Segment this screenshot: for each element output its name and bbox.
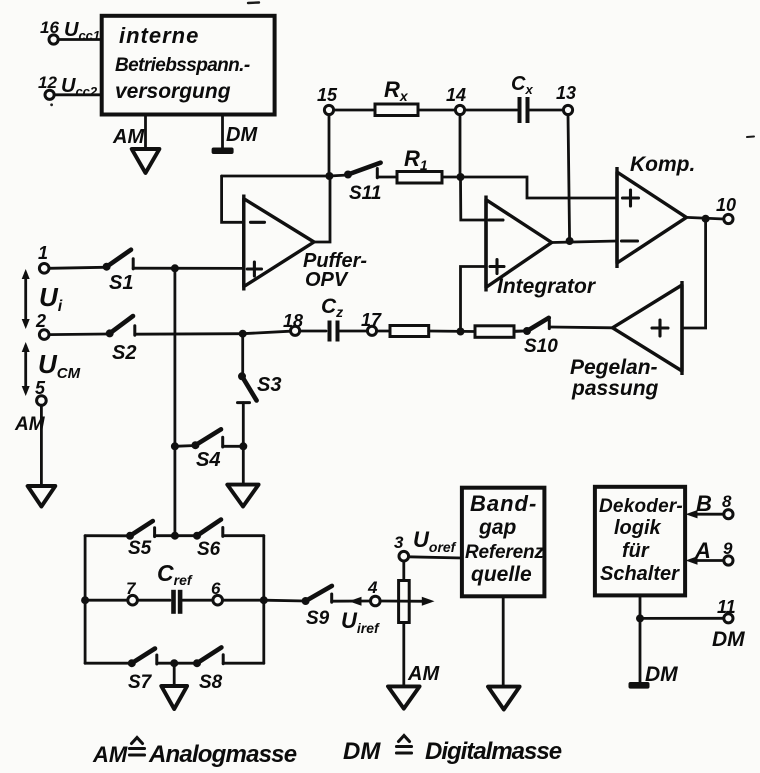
svg-text:16: 16 — [40, 18, 59, 37]
svg-text:Rx: Rx — [384, 77, 409, 104]
svg-text:Dekoder-: Dekoder- — [599, 496, 683, 517]
op-amp Integrator — [486, 196, 597, 299]
svg-text:8: 8 — [722, 492, 732, 511]
svg-text:AM: AM — [92, 742, 128, 767]
pin 11 — [712, 597, 745, 651]
switch S11 — [344, 163, 397, 204]
block Bandgap Referenzquelle — [462, 488, 545, 597]
resistor (level shift) — [475, 326, 514, 338]
wire node14 down to junction — [459, 115, 462, 177]
capacitor Cx — [511, 73, 533, 123]
wire pin12 to supply box — [54, 93, 102, 96]
wire mid-right to S9 — [264, 599, 306, 603]
svg-text:Komp.: Komp. — [630, 153, 695, 176]
junction S4 / ground branch — [239, 442, 247, 450]
resistor (integrator input) — [390, 326, 429, 337]
wire buffer feedback riser to inverting input — [222, 176, 244, 222]
capacitor Cref — [157, 560, 193, 614]
wire node18 to Cz — [300, 330, 326, 333]
junction Cref mid-left — [81, 596, 89, 604]
arrow Ui — [22, 269, 63, 329]
ground AM (bandgap) — [488, 687, 520, 710]
wire Cref top-left — [85, 534, 130, 537]
svg-text:OPV: OPV — [305, 269, 349, 291]
wire S3 branch upper — [241, 334, 244, 375]
node 17 — [361, 310, 382, 335]
wire pin5 down — [40, 405, 43, 486]
switch S5 — [126, 521, 155, 559]
op-amp Puffer-OPV — [244, 195, 368, 292]
svg-text:AM: AM — [407, 663, 440, 685]
wire node15 down — [328, 115, 331, 176]
wire node15 to Rx — [334, 109, 375, 112]
resistor (reference divider) — [399, 581, 410, 623]
junction integrator output / node13 drop — [566, 237, 574, 245]
switch S9 — [302, 586, 332, 629]
svg-text:logik: logik — [614, 517, 662, 539]
svg-text:S6: S6 — [197, 539, 221, 560]
switch S10 — [514, 318, 558, 357]
wire S3 branch lower — [242, 403, 245, 447]
pin 1 — [38, 243, 49, 273]
switch S2 — [106, 316, 137, 364]
svg-text:Integrator: Integrator — [497, 275, 597, 298]
wire node7 to Cref — [137, 599, 170, 602]
svg-text:DM: DM — [645, 663, 678, 686]
junction S4 row / main vertical — [171, 442, 179, 450]
wire node17 to resistor — [377, 330, 390, 333]
junction pin1 line / main vertical — [171, 264, 179, 272]
svg-text:DM: DM — [343, 738, 381, 765]
wire pin16 to supply box — [58, 38, 102, 41]
svg-text:S10: S10 — [524, 336, 558, 357]
wire supply box AM output — [144, 115, 147, 150]
block Dekoderlogik fuer Schalter — [595, 487, 685, 596]
arrow Ucm — [22, 342, 81, 396]
legend AM Analogmasse — [92, 738, 297, 769]
switch S4 — [191, 429, 243, 471]
ground AM (S4 branch) — [227, 485, 258, 507]
ground AM (Cref) — [161, 686, 187, 709]
svg-text:13: 13 — [556, 83, 576, 103]
ground DM bar (dekoder) — [629, 663, 679, 689]
svg-text:gap: gap — [478, 516, 517, 539]
op-amp Komp. — [617, 153, 695, 268]
ground DM bar (supply box) — [212, 148, 234, 155]
svg-text:Analogmasse: Analogmasse — [148, 741, 297, 768]
wire junction to pin11 — [640, 617, 724, 620]
svg-text:3: 3 — [394, 533, 404, 552]
svg-text:1: 1 — [38, 243, 48, 263]
wire S7 to S8 — [157, 662, 197, 665]
svg-text:Uiref: Uiref — [341, 608, 380, 636]
scan artifact dot — [50, 103, 53, 106]
svg-text:Band-: Band- — [470, 491, 537, 516]
wire resistor to S10 — [514, 330, 527, 333]
scan artifact dash right — [747, 136, 754, 139]
wire supply box DM output — [221, 115, 224, 149]
svg-text:A: A — [694, 538, 711, 563]
wire Rx to node14 — [418, 109, 455, 112]
junction dekoder DM — [636, 614, 644, 622]
svg-text:S5: S5 — [128, 538, 152, 559]
wire node3 to bandgap — [409, 557, 462, 558]
svg-text:S8: S8 — [199, 672, 223, 693]
svg-text:15: 15 — [317, 85, 338, 105]
resistor R1 — [397, 146, 442, 183]
wire dekoder down — [639, 595, 642, 684]
wire resistor to ground — [402, 623, 405, 687]
svg-text:interne: interne — [119, 23, 199, 48]
svg-text:Pegelan-: Pegelan- — [570, 356, 658, 379]
input A pin 9 — [686, 538, 734, 565]
switch S7 — [128, 649, 157, 694]
wire comparator output — [686, 217, 723, 219]
ground AM (supply box) — [132, 149, 160, 173]
wire R1 to comparator — [442, 177, 617, 198]
svg-text:10: 10 — [716, 195, 736, 215]
svg-text:AM: AM — [112, 126, 145, 148]
wire junction to S11 — [329, 175, 348, 176]
wire node3 down to resistor — [402, 561, 405, 581]
pin 12 Ucc2 — [38, 73, 98, 99]
svg-text:DM: DM — [226, 124, 258, 146]
wire S1 to buffer non-inverting input — [133, 267, 244, 270]
wire S6 to top-right corner — [223, 534, 264, 537]
node 3 — [394, 527, 457, 561]
svg-text:Referenz: Referenz — [465, 542, 544, 563]
junction Cz row / S3 branch — [239, 330, 247, 338]
node 7 — [126, 579, 137, 605]
pin 2 — [35, 311, 49, 339]
wire resistor to junction — [429, 330, 475, 333]
svg-text:B: B — [696, 491, 712, 516]
junction R1 line / node14 drop — [457, 173, 465, 181]
svg-text:Cx: Cx — [511, 73, 533, 97]
svg-text:Digitalmasse: Digitalmasse — [425, 738, 562, 765]
ground AM (Uiref) — [388, 686, 420, 708]
node 14 — [446, 85, 466, 115]
wire integrator output to comparator — [552, 241, 617, 243]
wire S9 to node4 with current arrow — [332, 597, 371, 606]
svg-text:passung: passung — [571, 377, 659, 400]
wire node14 to Cx — [465, 109, 517, 112]
wire Cref right vertical — [262, 536, 265, 664]
svg-text:R1: R1 — [404, 146, 428, 173]
svg-text:S11: S11 — [349, 183, 381, 204]
wire buffer feedback top — [222, 175, 330, 178]
wire S8 to bottom-right corner — [223, 662, 264, 665]
junction integrator + riser — [457, 328, 465, 336]
wire mid-left to node7 — [85, 599, 128, 602]
wire Cref to node6 — [183, 599, 213, 602]
svg-text:2: 2 — [35, 311, 46, 331]
switch S1 — [103, 250, 134, 294]
svg-text:Cref: Cref — [157, 560, 193, 588]
pin 10 — [716, 195, 736, 224]
wire main vertical — [173, 268, 176, 535]
wire junction down to integrator inverting input — [461, 177, 487, 220]
op-amp Pegelanpassung — [570, 281, 682, 400]
wire junction to node18 — [243, 331, 291, 334]
svg-text:S4: S4 — [196, 449, 220, 471]
ground AM (pin5) — [28, 486, 56, 507]
node 6 — [211, 579, 223, 605]
svg-text:DM: DM — [712, 628, 745, 651]
resistor Rx — [375, 77, 418, 116]
svg-text:versorgung: versorgung — [115, 80, 231, 103]
svg-text:S1: S1 — [109, 272, 133, 294]
wire S5 to S6 — [155, 534, 197, 537]
junction comparator output — [702, 215, 710, 223]
wire comparator output down to Pegelanpassung — [682, 219, 706, 328]
wire Pegelanpassung output to S10 — [550, 326, 613, 330]
switch S8 — [193, 647, 223, 693]
svg-text:14: 14 — [446, 85, 466, 105]
svg-text:S7: S7 — [128, 672, 153, 693]
wire pin2 to S2 — [49, 333, 106, 336]
node 4 — [367, 578, 380, 606]
wire S4 ground branch — [242, 446, 245, 484]
block interne Betriebsspannungsversorgung — [102, 16, 275, 115]
wire integrator non-inverting input riser — [461, 267, 487, 332]
wire Cref bottom-left — [85, 662, 132, 665]
svg-text:Cz: Cz — [321, 295, 343, 320]
pin 16 Ucc1 — [40, 18, 100, 44]
junction feedback/output — [325, 172, 333, 180]
node 13 — [556, 83, 576, 115]
svg-text:Betriebsspann.-: Betriebsspann.- — [115, 55, 250, 76]
svg-text:4: 4 — [367, 578, 378, 597]
svg-text:S9: S9 — [306, 608, 330, 629]
wire S2 to Cz row junction — [135, 332, 243, 335]
wire main vertical to S4 — [175, 444, 196, 448]
junction Cref bottom ground — [170, 659, 178, 667]
wire Cref left vertical — [84, 536, 87, 664]
scan artifact dash top — [248, 1, 259, 4]
switch S3 — [238, 372, 282, 402]
capacitor Cz — [321, 295, 343, 342]
svg-text:S2: S2 — [112, 342, 136, 364]
node 15 — [317, 85, 338, 115]
wire Cz to node17 — [338, 330, 368, 333]
legend DM Digitalmasse — [343, 736, 562, 766]
wire pin1 to S1 — [49, 267, 103, 268]
svg-text:für: für — [622, 540, 650, 562]
wire buffer output — [314, 176, 330, 242]
wire bandgap to ground — [502, 596, 505, 686]
junction Cref mid-right — [260, 596, 268, 604]
svg-text:S3: S3 — [257, 374, 281, 396]
node 18 — [283, 311, 303, 335]
input B pin 8 — [686, 491, 734, 519]
wire node13 down — [568, 115, 570, 241]
wire node6 to mid-right — [223, 599, 264, 602]
wire Cx to node13 — [528, 109, 564, 112]
svg-text:quelle: quelle — [471, 563, 532, 586]
wire Cref ground stub — [173, 663, 176, 686]
svg-text:Uoref: Uoref — [413, 527, 457, 555]
pin 5 — [35, 378, 46, 405]
svg-text:Schalter: Schalter — [600, 563, 680, 585]
junction main vertical / Cref top — [171, 532, 179, 540]
switch S6 — [193, 520, 223, 561]
wire node4 through resistor with current arrow — [380, 597, 434, 606]
